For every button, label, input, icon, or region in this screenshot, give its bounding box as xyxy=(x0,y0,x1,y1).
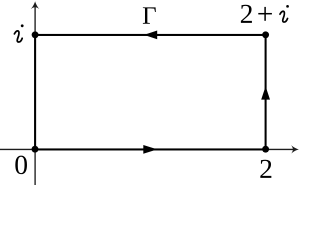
node 2 dot xyxy=(262,146,269,153)
label 2+i : the 2 xyxy=(241,5,252,23)
label 0 xyxy=(15,156,27,175)
x-axis arrowhead xyxy=(291,145,299,154)
node i dot xyxy=(32,31,39,38)
x-axis xyxy=(0,148,294,150)
label 2+i : plus sign xyxy=(258,13,272,15)
label Gamma xyxy=(143,7,156,23)
arrowhead top edge (leftward) xyxy=(144,31,157,40)
arrowhead bottom edge (rightward) xyxy=(143,145,157,154)
arrowhead right edge (upward) xyxy=(261,86,270,99)
y-axis xyxy=(34,7,36,186)
node 0 (origin dot) xyxy=(32,146,39,153)
contour rectangle xyxy=(35,35,266,150)
label i (math italic, drawn) xyxy=(14,24,23,42)
node 2+i dot xyxy=(262,31,269,38)
label 2+i : the i (math italic, drawn) xyxy=(280,5,289,22)
label 2 xyxy=(260,160,271,178)
y-axis arrowhead xyxy=(31,1,40,9)
